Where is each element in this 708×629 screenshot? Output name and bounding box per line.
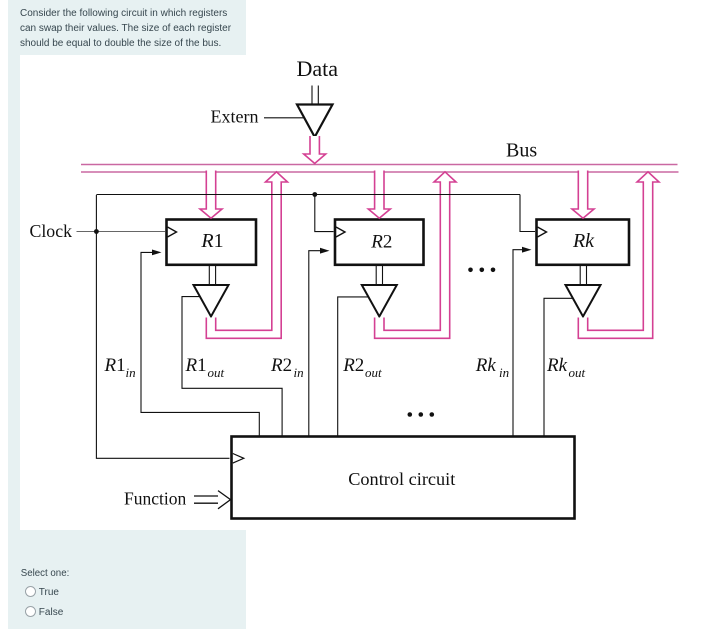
svg-text:Control circuit: Control circuit xyxy=(348,469,455,489)
Function double-line arrow xyxy=(194,491,231,509)
pin clock chevron Rk xyxy=(538,227,547,237)
svg-text:R2: R2 xyxy=(270,355,292,376)
wire R1in control line xyxy=(141,252,259,437)
pin clock chevron R1 xyxy=(168,227,177,237)
bus line 1 xyxy=(81,164,678,166)
svg-text:out: out xyxy=(365,365,382,380)
pin clock chevron control xyxy=(233,454,244,464)
wire R1 to buffer double line xyxy=(209,266,215,286)
svg-text:R2: R2 xyxy=(370,232,392,253)
svg-text:R2: R2 xyxy=(342,355,364,376)
tri-state buffer B2 (R2 output) xyxy=(362,285,397,317)
wire Rkin arrowhead xyxy=(522,247,532,253)
wire Extern input line xyxy=(264,117,304,119)
wire Rkin control line xyxy=(513,250,523,437)
bus line 2 xyxy=(81,171,679,173)
svg-text:Rk: Rk xyxy=(475,355,497,376)
svg-text:in: in xyxy=(294,365,304,380)
bus arrow down to Rk xyxy=(572,171,594,219)
bus arrow R2 output up to bus xyxy=(375,172,456,338)
bus arrow R1 output up to bus xyxy=(206,172,287,338)
wire R1out control line xyxy=(182,297,282,437)
svg-text:R1: R1 xyxy=(185,355,207,376)
svg-text:R1: R1 xyxy=(200,230,223,252)
tri-state buffer Bk (Rk output) xyxy=(566,285,601,317)
svg-text:Function: Function xyxy=(124,489,186,509)
wire clock drop to Rk xyxy=(520,195,535,232)
bus arrow down to R1 xyxy=(200,171,222,219)
pin clock chevron R2 xyxy=(336,227,345,237)
svg-text:R1: R1 xyxy=(104,355,126,376)
wire clock distribution left vertical xyxy=(96,195,229,458)
svg-text:out: out xyxy=(569,365,586,380)
svg-text:Bus: Bus xyxy=(506,140,537,162)
svg-text:Extern: Extern xyxy=(211,106,259,126)
wire Rk to buffer double line xyxy=(580,266,586,286)
node ellipsis lower xyxy=(408,412,435,417)
wire R2in arrowhead xyxy=(320,248,330,254)
svg-text:in: in xyxy=(499,365,509,380)
wire clock drop to R2 xyxy=(315,195,334,232)
node clock junction J1 xyxy=(94,229,99,234)
register Rk xyxy=(537,220,630,265)
wire clock feed from Clock label xyxy=(77,231,166,233)
wire R2in control line xyxy=(309,251,321,437)
tri-state buffer U1 (Extern) xyxy=(297,105,333,138)
wire R2 to buffer double line xyxy=(376,266,382,286)
svg-text:out: out xyxy=(208,365,225,380)
bus arrow Rk output up to bus xyxy=(578,172,659,338)
svg-text:Rk: Rk xyxy=(572,230,595,252)
svg-text:Rk: Rk xyxy=(546,355,568,376)
tri-state buffer B1 (R1 output) xyxy=(194,285,229,317)
register R1 xyxy=(167,220,257,265)
wire clock top line xyxy=(96,194,520,196)
wire Data double line xyxy=(312,86,318,105)
node ellipsis mid xyxy=(468,268,495,273)
wire R2out control line xyxy=(338,297,369,437)
register R2 xyxy=(335,220,424,265)
svg-text:in: in xyxy=(126,365,136,380)
wire R1in arrowhead xyxy=(152,250,162,256)
wire Rkout control line xyxy=(544,298,573,437)
svg-text:Clock: Clock xyxy=(30,221,73,241)
node clock junction J2 xyxy=(312,192,317,197)
control circuit box xyxy=(232,437,575,519)
bus arrow Extern down xyxy=(304,136,326,164)
svg-text:Data: Data xyxy=(297,56,339,81)
bus arrow down to R2 xyxy=(368,171,390,219)
